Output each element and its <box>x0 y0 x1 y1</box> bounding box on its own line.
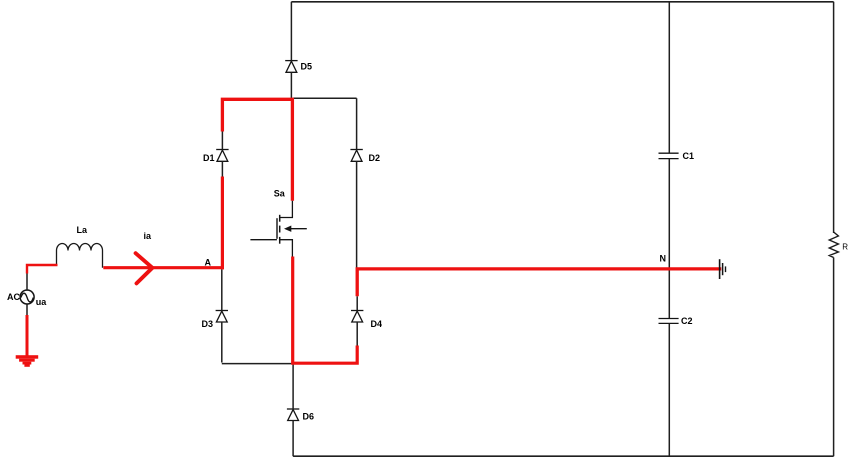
ground (red) at AC source <box>16 355 39 367</box>
wire: capacitor branch top lead <box>668 2 670 153</box>
svg-text:D2: D2 <box>369 153 381 163</box>
svg-text:La: La <box>77 225 88 235</box>
wire (red): D4 top up to output junction and across to node N <box>357 269 721 296</box>
svg-text:D3: D3 <box>202 319 214 329</box>
svg-text:AC: AC <box>7 292 20 302</box>
wire: D3 branch leads from node A to bottom-left corner <box>221 269 223 362</box>
wire: bottom DC rail <box>293 455 834 457</box>
wire: D4 leads (under red) <box>356 296 358 345</box>
wire (red): Sa source down, across to D4 bottom <box>293 257 358 364</box>
wire (red): inductor to node A <box>103 266 224 269</box>
wire: capacitor branch middle lead <box>668 159 670 319</box>
wire: horizontal link from center junction to D2 branch <box>293 97 357 99</box>
wire (red): AC top lead to inductor <box>27 265 58 274</box>
arrow: current direction ia <box>136 231 153 283</box>
wire: right branch upper lead to resistor <box>833 2 835 233</box>
wire: D5 anode lead down to node P junction <box>290 2 292 99</box>
resistor R <box>829 232 848 258</box>
diode D5 <box>285 61 312 73</box>
wire: D2 branch leads <box>356 98 358 269</box>
svg-text:ia: ia <box>144 231 153 241</box>
svg-text:C2: C2 <box>681 316 693 326</box>
capacitor C1 <box>659 151 695 161</box>
wire: AC source leads <box>26 273 28 317</box>
AC source ua <box>7 290 47 307</box>
svg-text:Sa: Sa <box>274 188 286 198</box>
svg-text:ua: ua <box>36 297 47 307</box>
diode D3 <box>202 311 229 330</box>
svg-text:N: N <box>660 254 667 264</box>
diode D6 <box>287 409 314 422</box>
transistor Sa (MOSFET) <box>250 188 306 256</box>
wire: D6 branch leads <box>292 363 294 456</box>
svg-text:D5: D5 <box>301 62 313 72</box>
wire: right branch lower lead from resistor <box>833 258 835 457</box>
svg-text:R: R <box>842 243 848 252</box>
ground at node N <box>720 259 726 279</box>
wire: top DC rail <box>291 1 833 3</box>
diode D2 <box>350 150 380 164</box>
diode D1 <box>203 150 229 164</box>
wire: D1 leads <box>221 132 223 177</box>
capacitor C2 <box>659 316 693 326</box>
svg-text:D1: D1 <box>203 153 215 163</box>
wire (red): D1 top, across and down to Sa drain <box>222 99 292 201</box>
svg-text:A: A <box>205 258 212 268</box>
svg-text:C1: C1 <box>683 151 695 161</box>
svg-text:D6: D6 <box>303 412 315 422</box>
wire (red): node A up to D1 <box>221 177 224 270</box>
wire (red): AC bottom lead to ground <box>26 315 29 356</box>
inductor La <box>57 225 103 268</box>
wire: capacitor branch bottom lead <box>668 324 670 456</box>
diode D4 <box>351 311 382 330</box>
wire: bottom-left horizontal link <box>222 363 293 365</box>
svg-text:D4: D4 <box>371 319 383 329</box>
